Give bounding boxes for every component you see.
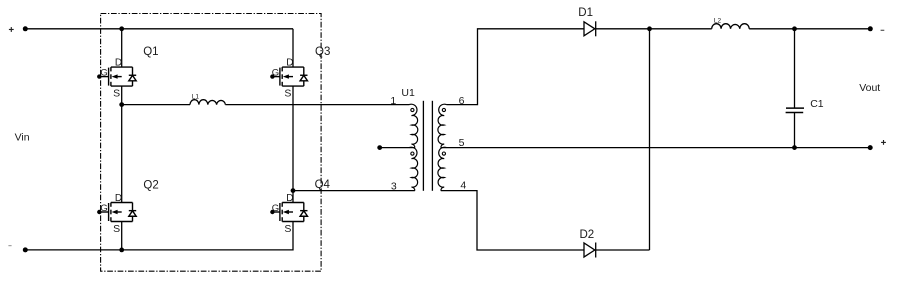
inductor L2 <box>712 24 750 29</box>
svg-text:Vout: Vout <box>859 82 880 94</box>
wire center tap secondary to output plus <box>441 147 870 149</box>
wire C1 top lead <box>794 29 796 108</box>
node primary center tap terminal <box>377 145 382 150</box>
node rectified top <box>647 26 652 31</box>
svg-text:Q2: Q2 <box>143 179 158 191</box>
wire Q4 drain <box>292 191 294 203</box>
svg-text:L1: L1 <box>192 93 200 100</box>
svg-text:1: 1 <box>390 95 396 107</box>
terminal Vin- <box>23 247 28 252</box>
wire left leg midpoint to Q2 drain <box>121 105 123 203</box>
transistor Q2 <box>100 193 136 235</box>
node Q2 source on bottom rail <box>119 248 124 253</box>
diode D1 <box>584 22 595 36</box>
wire Q2 source <box>121 221 123 250</box>
transistor Q4 <box>272 193 308 235</box>
svg-text:6: 6 <box>459 95 465 107</box>
polarity dot primary top <box>411 108 414 111</box>
diode D2 <box>584 243 595 257</box>
wire pin 4 to D2 <box>441 191 584 250</box>
wire right leg midpoint to transformer pin 3 <box>293 190 415 192</box>
node Q2 gate terminal <box>97 210 101 214</box>
svg-text:Q3: Q3 <box>315 46 330 58</box>
transformer core <box>422 101 424 191</box>
svg-text:Vin: Vin <box>15 132 30 144</box>
terminal Vout- <box>868 26 873 31</box>
terminal Vin+ <box>23 26 28 31</box>
inductor L1 <box>190 100 225 105</box>
polarity dot primary bottom <box>411 152 414 155</box>
wire Q1 source to bridge node <box>121 86 123 105</box>
svg-text:U1: U1 <box>401 87 415 99</box>
node C1 on plus rail <box>792 145 797 150</box>
node right leg midpoint <box>291 188 296 193</box>
polarity dot secondary top <box>442 108 445 111</box>
node bridge left midpoint <box>119 102 124 107</box>
node Q1 gate terminal <box>97 74 101 78</box>
node Q4 gate terminal <box>270 210 274 214</box>
svg-text:Q1: Q1 <box>143 46 158 58</box>
wire rectified node to L2 <box>650 28 712 30</box>
wire L1 to transformer pin 1 <box>225 104 409 106</box>
transformer U1 secondary winding <box>438 104 447 190</box>
capacitor C1 <box>786 107 804 109</box>
wire primary center tap <box>380 147 415 149</box>
label - (Vout minus) <box>881 30 885 31</box>
wire bridge midpoint to L1 <box>122 104 190 106</box>
terminal Vout+ <box>868 145 873 150</box>
wire Q3 drain <box>292 29 294 67</box>
svg-text:D2: D2 <box>580 229 595 241</box>
svg-text:Q4: Q4 <box>315 179 331 191</box>
transformer U1 primary winding <box>409 104 418 190</box>
svg-text:D1: D1 <box>578 7 593 19</box>
wire bottom rail <box>25 221 293 250</box>
node Q3 gate terminal <box>270 74 274 78</box>
wire output node to terminal <box>795 28 871 30</box>
wire Q3 source to Q4 drain <box>292 86 294 191</box>
label - (Vin minus) <box>8 245 11 246</box>
wire C1 bottom lead <box>794 113 796 148</box>
svg-text:3: 3 <box>391 180 397 192</box>
svg-text:C1: C1 <box>810 98 824 110</box>
wire pin 6 to top rail <box>447 29 585 105</box>
wire rectified node vertical to D2 <box>649 29 651 250</box>
svg-text:L2: L2 <box>714 18 722 25</box>
transistor Q3 <box>272 58 308 100</box>
wire D1 cathode to rectified node <box>596 28 650 30</box>
wire top rail <box>25 28 293 30</box>
dashed converter box <box>101 14 322 272</box>
wire L2 to output node <box>749 28 794 30</box>
transistor Q1 <box>100 58 136 100</box>
polarity dot secondary bottom <box>442 152 445 155</box>
label + (Vout plus) <box>881 140 886 145</box>
wire D2 cathode to rectified vertical <box>596 249 650 251</box>
wire Q1 drain <box>121 29 123 67</box>
node output top <box>792 26 797 31</box>
svg-text:4: 4 <box>460 179 466 191</box>
node Q1 drain <box>119 26 124 31</box>
label + (Vin plus) <box>9 27 14 32</box>
